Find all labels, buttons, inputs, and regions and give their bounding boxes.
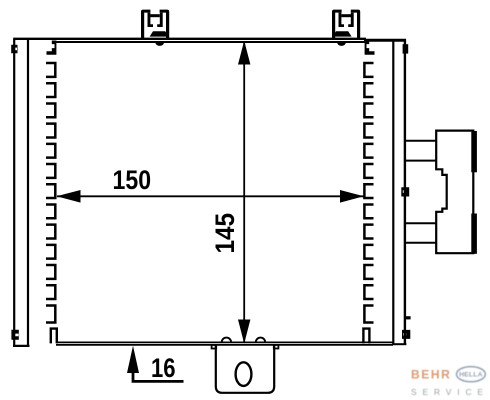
- connector block bottom black bar: [471, 214, 477, 254]
- svg-text:150: 150: [113, 165, 152, 195]
- inlet pipe upper pair: [406, 141, 438, 161]
- top mounting bracket left: [141, 10, 169, 46]
- bottom tab body: [216, 345, 274, 393]
- right tank bottom hook: [363, 329, 369, 344]
- arrow bottom of 145: [238, 320, 250, 344]
- right tank fin ticks: [364, 63, 373, 322]
- top edge line lower: [56, 41, 367, 43]
- left plate top clip: [11, 45, 18, 54]
- left tank top hook: [47, 41, 57, 55]
- svg-text:BEHR: BEHR: [411, 367, 451, 381]
- left tank bottom hook: [51, 329, 57, 344]
- right tank top hook: [365, 41, 375, 55]
- svg-text:16: 16: [151, 353, 176, 383]
- svg-text:HELLA: HELLA: [459, 372, 483, 379]
- right plate bottom clip: [402, 330, 410, 339]
- arrow right of 150: [340, 190, 364, 203]
- outlet pipe lower pair: [406, 223, 438, 243]
- dimension 16 arrow: [127, 346, 139, 373]
- right plate lower stub: [406, 316, 411, 319]
- dimension 16 leader: [133, 371, 184, 381]
- bump right on bottom edge: [256, 338, 265, 343]
- oval hole in tab: [236, 362, 252, 386]
- left side plate: [13, 39, 30, 346]
- right side plate: [392, 41, 406, 345]
- svg-text:SERVICE: SERVICE: [411, 387, 489, 397]
- svg-text:145: 145: [210, 213, 240, 254]
- right plate middle clip: [401, 187, 409, 196]
- bump left on bottom edge: [222, 338, 231, 343]
- bottom tab ear right: [274, 345, 279, 349]
- arrow top of 145: [238, 41, 250, 65]
- HELLA ellipse: [457, 367, 486, 382]
- top mounting bracket right: [332, 10, 360, 46]
- left tank fin ticks: [46, 63, 55, 322]
- dimension line 150: [57, 195, 364, 197]
- bottom tab ear left: [212, 345, 217, 349]
- connector block top black bar: [471, 131, 477, 172]
- left plate bottom clip: [11, 330, 19, 340]
- dimension line 145: [243, 43, 245, 343]
- bottom edge line lower: [56, 344, 393, 346]
- top edge line upper: [13, 38, 366, 40]
- right plate top clip: [403, 44, 409, 53]
- top edge right segment: [364, 39, 406, 42]
- arrow left of 150: [57, 190, 81, 203]
- bottom edge line upper: [56, 341, 393, 343]
- connector block outline: [436, 131, 473, 254]
